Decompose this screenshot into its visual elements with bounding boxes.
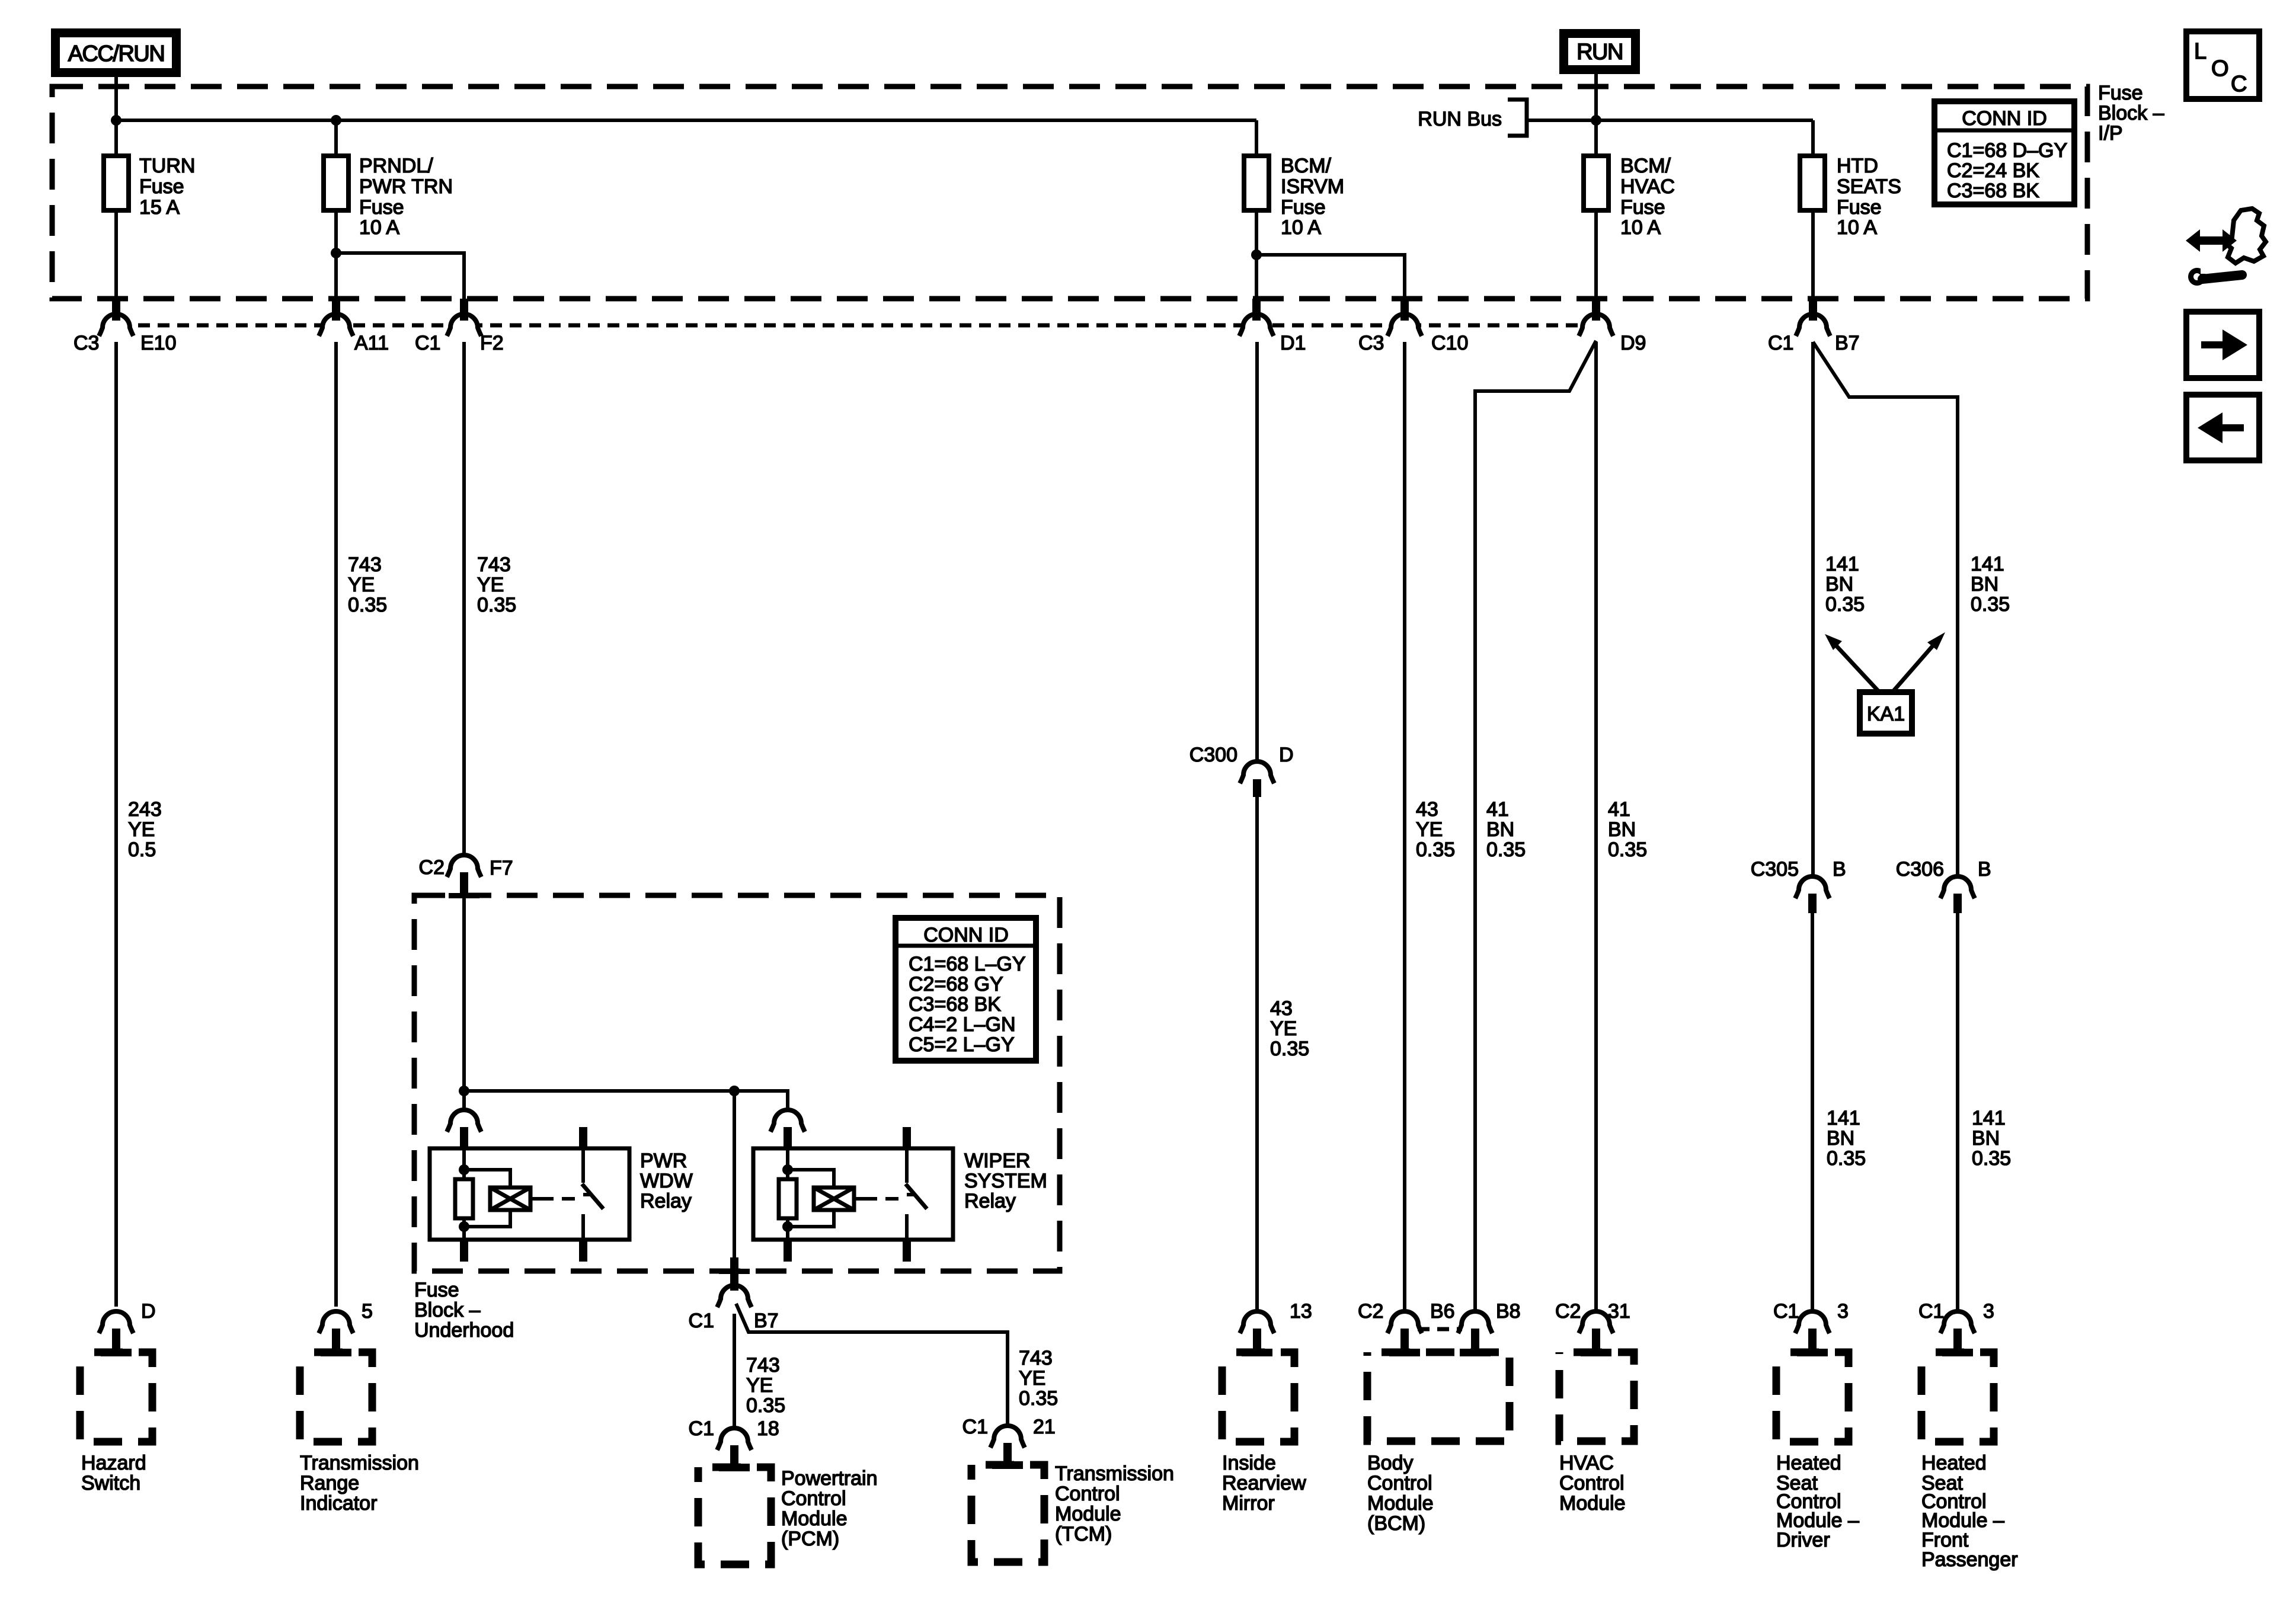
svg-text:BN: BN [1827,1127,1854,1150]
svg-text:C: C [2231,72,2246,97]
svg-text:C3=68 BK: C3=68 BK [1947,180,2039,202]
wire HTD fuse to B7 [1811,210,1815,299]
svg-text:WIPER: WIPER [964,1150,1030,1172]
fuse TURN 15A [104,156,129,210]
wire to C1/B7 [733,1091,736,1257]
label circuit 743 YE 0.35 [348,553,387,616]
module Inside Rearview Mirror [1222,1352,1294,1442]
wire 743 YE to Trans Range Ind [334,342,338,1307]
stub D1 [1252,299,1261,321]
icon LOC [2186,31,2259,99]
svg-text:HVAC: HVAC [1620,175,1675,198]
svg-text:C1=68 L–GY: C1=68 L–GY [909,953,1026,975]
wire ACC/RUN bus [116,119,1256,122]
relay PWR WDW switch [579,1127,587,1148]
label TCM [1055,1462,1174,1545]
label BCM [1367,1452,1434,1535]
label WIPER SYSTEM [964,1150,1047,1212]
connector arc Mirror 13 [1240,1311,1274,1333]
svg-text:Transmission: Transmission [1055,1462,1174,1485]
svg-text:Fuse: Fuse [414,1279,459,1301]
svg-text:BN: BN [1486,818,1514,841]
pin WIPER SYSTEM switch out [903,1240,911,1262]
svg-text:(PCM): (PCM) [781,1528,839,1550]
fuse HTD SEATS 10A [1800,156,1825,210]
label HTD SEATS fuse [1837,155,1901,239]
wire ISRVM fuse to D1 [1255,210,1258,299]
svg-text:13: 13 [1290,1300,1312,1323]
stub E10 [112,299,120,321]
connector C1 pin 18 [717,1428,752,1450]
svg-text:C305: C305 [1751,858,1799,881]
relay PWR WDW coil input arc [447,1110,481,1132]
svg-text:141: 141 [1827,1107,1860,1129]
module HVAC Control Module [1559,1352,1634,1441]
label circuit 43 YE 0.35 [1416,798,1455,861]
wire 141 BN to passenger module [1956,913,1959,1311]
label TURN fuse [139,155,195,219]
label circuit 743 YE 0.35 [746,1354,785,1417]
connector arc HVAC 31 [1579,1311,1613,1333]
svg-text:WDW: WDW [640,1170,693,1192]
svg-text:F2: F2 [480,332,504,354]
svg-text:0.35: 0.35 [1971,593,2010,616]
power feed box RUN [1559,29,1640,74]
svg-text:Module: Module [1559,1492,1626,1515]
svg-text:Switch: Switch [81,1472,140,1494]
connector C306 pin B [1940,876,1975,898]
svg-text:C2: C2 [1358,1300,1383,1323]
svg-text:Rearview: Rearview [1222,1472,1306,1494]
svg-text:Module: Module [1055,1503,1121,1525]
svg-text:Relay: Relay [640,1190,692,1212]
svg-text:YE: YE [348,574,375,596]
svg-text:C1: C1 [689,1417,714,1440]
svg-text:10 A: 10 A [359,216,399,239]
label Trans Range Ind [300,1452,419,1515]
wire jog ISRVM to C10 [1256,255,1405,299]
svg-text:5: 5 [362,1300,373,1323]
label circuit 41 BN 0.35 [1486,798,1526,861]
label PRNDL fuse [359,155,453,239]
relay PWR WDW coil resistor [462,1148,466,1179]
svg-text:Powertrain: Powertrain [781,1467,878,1490]
label circuit 41 BN 0.35 [1608,798,1647,861]
wire RUN feed to BCM/HVAC fuse [1594,74,1598,156]
power feed box ACC/RUN [51,28,181,77]
svg-text:43: 43 [1416,798,1438,821]
wire 743 YE to F7 [462,342,466,855]
module Transmission Control Module (TCM) [971,1465,1044,1562]
wire 41 BN to HVAC [1594,342,1598,1311]
label circuit 141 BN 0.35 [1972,1107,2011,1170]
splice KA1 with arrows [1825,632,1945,734]
svg-text:SEATS: SEATS [1837,175,1901,198]
svg-text:C2: C2 [419,856,445,879]
svg-text:C1=68 D–GY: C1=68 D–GY [1947,139,2067,162]
svg-text:41: 41 [1486,798,1509,821]
svg-text:C5=2 L–GY: C5=2 L–GY [909,1033,1015,1056]
label circuit 243 YE 0.5 [128,798,162,861]
junction to relays [459,1086,469,1096]
junction to B7 feed [729,1086,740,1096]
connector arc D1 [1239,314,1274,336]
connector C305 pin B [1795,876,1830,898]
stub C10 [1400,299,1409,321]
svg-text:E10: E10 [140,332,177,354]
svg-text:10 A: 10 A [1620,216,1661,239]
svg-text:41: 41 [1608,798,1630,821]
label HVAC Control Module [1559,1452,1626,1515]
module Hazard Switch [80,1352,152,1442]
svg-text:C2=68 GY: C2=68 GY [909,973,1003,996]
svg-text:C1: C1 [1768,332,1793,354]
svg-text:CONN ID: CONN ID [1962,107,2047,130]
junction ACC/RUN bus at PRNDL [331,115,341,126]
svg-text:Fuse: Fuse [1620,196,1665,219]
svg-text:18: 18 [757,1417,779,1440]
svg-text:3: 3 [1837,1300,1849,1323]
svg-text:YE: YE [128,818,155,841]
wire ACC/RUN feed to TURN fuse [114,77,118,156]
svg-text:YE: YE [477,574,504,596]
svg-text:3: 3 [1983,1300,1994,1323]
svg-text:Module: Module [781,1507,848,1530]
svg-text:C4=2 L–GN: C4=2 L–GN [909,1013,1016,1036]
wire RUN bus [1527,119,1813,122]
svg-text:C3: C3 [73,332,99,354]
svg-text:Transmission: Transmission [300,1452,419,1474]
svg-text:141: 141 [1972,1107,2006,1129]
svg-text:743: 743 [1019,1347,1053,1369]
svg-text:Fuse: Fuse [139,175,184,198]
svg-text:43: 43 [1270,997,1293,1020]
label Heated Seat Passenger [1921,1452,2018,1571]
svg-text:YE: YE [1019,1367,1045,1390]
svg-text:PWR: PWR [640,1150,687,1172]
svg-text:D: D [1279,744,1294,766]
svg-text:B: B [1978,858,1991,881]
RUN Bus bracket [1508,100,1527,136]
label BCM/ISRVM fuse [1281,155,1344,239]
svg-text:0.35: 0.35 [1825,593,1865,616]
Fuse Block - I/P dashed boundary [52,87,2087,299]
stub WIPER SYSTEM actuator [854,1197,864,1201]
svg-text:Inside: Inside [1222,1452,1276,1474]
svg-text:743: 743 [348,553,382,576]
label circuit 743 YE 0.35 [1019,1347,1058,1410]
svg-text:RUN Bus: RUN Bus [1418,108,1502,130]
CONN ID table (underhood) [896,918,1036,1061]
svg-text:Hazard: Hazard [81,1452,146,1474]
svg-text:0.35: 0.35 [348,594,387,616]
connector arc BCM B6 [1387,1311,1422,1333]
Fuse Block - Underhood dashed boundary [414,895,1060,1271]
connector arc C10 [1387,314,1422,336]
wire 243 YE to Hazard Switch [114,342,118,1307]
wire 41 BN to BCM B8 [1475,341,1596,1311]
svg-text:SYSTEM: SYSTEM [964,1170,1047,1192]
svg-text:C1: C1 [962,1416,988,1438]
pin WIPER SYSTEM coil out [784,1240,792,1262]
module Heated Seat Control Module - Front Passenger [1921,1352,1994,1442]
module Transmission Range Indicator [300,1352,372,1442]
icon arrow left [2186,395,2259,460]
label circuit 141 BN 0.35 [1827,1107,1866,1170]
svg-text:YE: YE [746,1374,773,1397]
fuse PRNDL/PWR TRN 10A [324,156,348,210]
svg-text:0.35: 0.35 [1486,838,1526,861]
svg-text:D9: D9 [1620,332,1646,354]
connector arc Hazard D [99,1311,133,1333]
svg-text:C1: C1 [1773,1300,1799,1323]
wire PRNDL fuse to A11 [334,210,338,299]
stub B7 [1809,299,1817,321]
CONN ID table (I/P) [1934,101,2074,204]
svg-text:Fuse: Fuse [1281,196,1326,219]
connector arc B7 [1796,314,1830,336]
wire RUN bus to HTD SEATS fuse [1811,120,1815,156]
fuse BCM/HVAC 10A [1584,156,1609,210]
svg-text:BCM/: BCM/ [1281,155,1332,177]
module Powertrain Control Module (PCM) [698,1467,771,1564]
relay WIPER SYSTEM switch [903,1127,911,1148]
svg-text:243: 243 [128,798,162,821]
wire 743 YE to TCM [736,1304,1008,1426]
svg-text:Control: Control [781,1487,846,1510]
label circuit 43 YE 0.35 [1270,997,1309,1060]
svg-text:Body: Body [1367,1452,1414,1474]
wire bus to BCM/ISRVM fuse [1255,120,1258,156]
wire 43 YE to BCM B6 [1403,342,1406,1311]
label PWR WDW [640,1150,693,1212]
connector arc Driver 3 [1795,1311,1830,1333]
svg-text:Control: Control [1055,1483,1120,1505]
label PCM [781,1467,878,1550]
svg-text:B8: B8 [1496,1300,1521,1323]
relay PWR WDW box [430,1148,629,1240]
connector arc Passenger 3 [1940,1311,1975,1333]
svg-text:BN: BN [1971,573,1998,596]
svg-text:0.35: 0.35 [1416,838,1455,861]
svg-text:C1: C1 [689,1310,714,1332]
svg-text:141: 141 [1971,553,2004,575]
label Fuse Block - Underhood [414,1279,514,1342]
relay PWR WDW solenoid winding [464,1170,510,1188]
svg-text:141: 141 [1825,553,1859,575]
wire bus to PRNDL fuse [334,120,338,156]
svg-text:Mirror: Mirror [1222,1492,1275,1515]
svg-text:I/P: I/P [2098,122,2123,145]
wire HVAC fuse to D9 [1594,210,1598,299]
wire link to wiper relay coil [464,1091,788,1112]
stub A11 [332,299,340,321]
svg-text:B7: B7 [754,1310,779,1332]
wire 43 YE to mirror [1255,797,1259,1311]
wire 43 YE to C300 [1255,342,1259,761]
stub F2 [460,299,468,321]
svg-text:(BCM): (BCM) [1367,1512,1425,1535]
svg-text:Underhood: Underhood [414,1319,514,1342]
svg-text:743: 743 [746,1354,780,1377]
svg-text:C300: C300 [1189,744,1237,766]
svg-text:0.35: 0.35 [1827,1147,1866,1170]
svg-text:C306: C306 [1896,858,1944,881]
svg-text:ACC/RUN: ACC/RUN [68,41,165,66]
icon arrow right [2186,312,2259,378]
svg-text:PRNDL/: PRNDL/ [359,155,433,177]
svg-text:Heated: Heated [1921,1452,1987,1474]
svg-text:BN: BN [1972,1127,2000,1150]
svg-text:HVAC: HVAC [1559,1452,1614,1474]
fuse BCM/ISRVM 10A [1244,156,1269,210]
svg-text:31: 31 [1608,1300,1630,1323]
svg-text:Fuse: Fuse [359,196,404,219]
label Inside Rearview Mirror [1222,1452,1306,1515]
label Hazard Switch [81,1452,146,1494]
wire 141 BN to C305 [1811,342,1815,876]
pin PWR WDW switch out [579,1240,587,1262]
svg-text:Driver: Driver [1776,1529,1830,1551]
wire 141 BN to C306 [1813,342,1958,877]
dotted link B6-B8 [1418,1327,1462,1331]
label Fuse Block - I/P [2098,82,2164,145]
stub D9 [1592,299,1600,321]
label circuit 141 BN 0.35 [1825,553,1865,616]
connector C1 pin B7 (underhood out) [717,1285,752,1307]
wire 141 BN to driver module [1811,913,1814,1311]
svg-text:10 A: 10 A [1837,216,1877,239]
svg-text:Heated: Heated [1776,1452,1841,1474]
svg-text:BN: BN [1608,818,1636,841]
relay WIPER SYSTEM box [753,1148,953,1240]
svg-text:BN: BN [1825,573,1853,596]
svg-text:Relay: Relay [964,1190,1016,1212]
label BCM/HVAC fuse [1620,155,1675,239]
svg-text:F7: F7 [490,857,513,879]
svg-text:O: O [2211,56,2228,81]
junction RUN bus [1591,115,1601,126]
connector arc BCM B8 [1458,1311,1492,1333]
svg-text:0.35: 0.35 [1608,838,1647,861]
wire F7 into fuse block [462,898,466,1112]
svg-text:15 A: 15 A [139,196,180,219]
svg-text:KA1: KA1 [1867,703,1905,725]
svg-text:0.35: 0.35 [1972,1147,2011,1170]
svg-text:Passenger: Passenger [1921,1548,2018,1571]
connector C1 pin 21 [990,1426,1025,1448]
svg-text:RUN: RUN [1576,40,1623,65]
module Body Control Module (BCM) [1367,1352,1510,1441]
svg-text:0.35: 0.35 [746,1394,785,1417]
svg-text:Control: Control [1367,1472,1432,1494]
svg-text:Fuse: Fuse [2098,82,2143,104]
module Heated Seat Control Module - Driver [1776,1352,1849,1442]
svg-text:Indicator: Indicator [300,1492,377,1515]
svg-text:TURN: TURN [139,155,195,177]
svg-text:YE: YE [1270,1017,1297,1040]
svg-text:CONN ID: CONN ID [923,924,1009,946]
svg-text:B6: B6 [1430,1300,1455,1323]
label Heated Seat Driver [1776,1452,1859,1551]
junction PRNDL split [331,248,341,258]
connector C2 pin F7 [447,855,481,877]
connector C300 pin D [1240,761,1274,783]
wire 743 YE to PCM [733,1314,736,1429]
svg-text:C1: C1 [1918,1300,1944,1323]
svg-text:L: L [2194,39,2206,64]
svg-text:C2=24 BK: C2=24 BK [1947,159,2039,182]
svg-text:0.35: 0.35 [1019,1387,1058,1410]
label circuit 141 BN 0.35 [1971,553,2010,616]
svg-text:0.35: 0.35 [477,594,516,616]
connector arc TRI 5 [319,1311,353,1333]
svg-text:21: 21 [1033,1416,1056,1438]
svg-text:Module: Module [1367,1492,1434,1515]
connector arc E10 [99,314,133,336]
svg-text:B7: B7 [1835,332,1860,354]
connector arc D9 [1579,314,1613,336]
svg-text:C10: C10 [1431,332,1468,354]
relay WIPER SYSTEM solenoid winding [788,1170,834,1188]
svg-text:C3: C3 [1358,332,1384,354]
junction ACC/RUN bus at TURN [111,115,121,126]
connector row dotted line [119,324,1588,328]
junction ISRVM split [1251,249,1262,260]
stub PWR WDW actuator [530,1197,541,1201]
connector arc A11 [319,314,353,336]
wire TURN fuse to E10 [114,210,118,299]
svg-text:D: D [141,1300,156,1323]
svg-text:Fuse: Fuse [1837,196,1882,219]
svg-text:743: 743 [477,553,511,576]
svg-text:ISRVM: ISRVM [1281,175,1344,198]
relay WIPER SYSTEM coil resistor [786,1148,789,1179]
pin PWR WDW coil out [460,1240,468,1262]
relay WIPER SYSTEM coil input arc [770,1110,805,1132]
icon service tool with arrows [2186,209,2266,286]
svg-text:PWR TRN: PWR TRN [359,175,453,198]
svg-text:C2: C2 [1555,1300,1581,1323]
svg-text:10 A: 10 A [1281,216,1321,239]
svg-text:C1: C1 [415,332,440,354]
svg-text:(TCM): (TCM) [1055,1523,1112,1545]
svg-text:A11: A11 [354,332,389,354]
svg-text:HTD: HTD [1837,155,1878,177]
svg-text:Block –: Block – [414,1299,481,1321]
label circuit 743 YE 0.35 [477,553,516,616]
svg-text:Control: Control [1559,1472,1625,1494]
wire jog PRNDL to F2 [336,253,464,299]
svg-text:0.5: 0.5 [128,838,156,861]
svg-text:0.35: 0.35 [1270,1038,1309,1060]
connector arc F2 [447,314,481,336]
svg-text:YE: YE [1416,818,1443,841]
svg-text:D1: D1 [1280,332,1306,354]
svg-text:Range: Range [300,1472,359,1494]
svg-text:Block –: Block – [2098,102,2164,124]
svg-text:B: B [1833,858,1846,881]
svg-text:C3=68 BK: C3=68 BK [909,993,1001,1016]
svg-text:BCM/: BCM/ [1620,155,1671,177]
